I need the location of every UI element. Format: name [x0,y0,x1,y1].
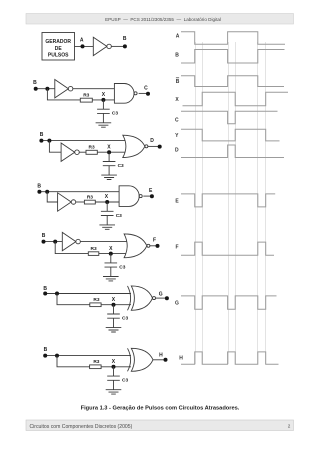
svg-text:Circuitos com Componentes Disc: Circuitos com Componentes Discretos (200… [30,424,133,430]
nor U9 [124,234,147,258]
node B row6 [43,292,47,296]
capacitor C3 [107,305,120,328]
svg-text:Y: Y [175,133,179,139]
wire R3 to node X row4 to NAND U7 [95,201,119,203]
svg-text:R3: R3 [83,92,89,98]
svg-text:C3: C3 [122,316,128,322]
xnor U10 [131,286,152,310]
wire row6 B to XNOR U10 top input [45,293,131,295]
ground [96,123,112,127]
waveform F [181,242,274,255]
wire inverter U6 output to R3 row4 [76,201,85,203]
wire row5 branch down to R3 [55,242,88,254]
inverter U8 [62,232,76,250]
capacitor C3 [107,367,120,390]
node junction row6 [55,292,59,296]
waveform X [183,92,289,106]
svg-text:Figura 1.3 - Geração de Pulsos: Figura 1.3 - Geração de Pulsos com Circu… [81,406,240,412]
waveform D [181,145,284,158]
svg-text:C3: C3 [116,213,122,219]
node B row7 [43,354,47,358]
waveform G [181,296,277,309]
node D [158,145,162,149]
nand U7 [119,186,139,207]
resistor R3 [84,200,95,204]
wire R3 to node X row5 to NOR U9 [99,253,129,255]
wire inverter U4 output to R3 row3 [79,151,86,153]
node A [81,44,85,48]
node junction row4 [45,190,49,194]
node G [165,296,169,300]
wire R3 to node X row2 [92,99,114,101]
node X row2 [101,98,105,102]
node X row3 [107,150,111,154]
node junction row3 [47,139,51,143]
capacitor C3 [103,152,116,175]
node H [164,358,168,362]
svg-text:G: G [175,301,179,307]
node X row6 [112,303,116,307]
svg-text:R3: R3 [91,246,97,252]
svg-text:X: X [109,246,113,252]
capacitor C3 [105,254,118,277]
svg-text:2: 2 [288,424,291,429]
svg-text:H: H [159,352,163,358]
svg-text:B: B [44,347,48,353]
svg-text:C: C [144,85,148,91]
svg-text:H: H [179,355,183,361]
svg-text:C3: C3 [112,111,118,117]
node C [146,92,150,96]
node X row4 [105,200,109,204]
waveform A [181,32,285,45]
node B row4 [37,190,41,194]
wire row2 branch down to R3 [47,89,80,100]
wire inverter U1 output to node B [111,45,125,47]
svg-text:B: B [43,286,47,292]
node junction row5 [53,240,57,244]
block GERADOR DE PULSOS [42,33,75,61]
svg-text:X: X [107,144,111,150]
wire row7 B to XOR U11 top input [45,355,131,357]
svg-text:F: F [153,238,156,244]
svg-text:PULSOS: PULSOS [48,52,69,58]
svg-text:A: A [176,34,180,40]
inverter U6 [58,193,72,211]
svg-text:X: X [105,194,109,200]
wire row3 branch down to inverter U4 [49,141,61,153]
node B [123,44,127,48]
capacitor C3 [101,202,114,225]
wire NAND U7 output to node E [143,195,152,197]
wire inverter U2 output to NAND U3 [73,88,115,90]
node X row5 [109,252,113,256]
node junction row2 [45,87,49,91]
svg-text:C3: C3 [119,264,125,270]
svg-text:B: B [176,79,180,85]
svg-text:D: D [175,148,179,154]
resistor R3 [80,98,92,102]
resistor R3 [90,365,102,369]
wire NOR U5 output to node D [148,145,160,147]
wire XOR U11 output to node H [153,359,166,361]
timing grid vertical lines [195,42,197,364]
nand U3 [114,84,134,104]
node B row2 [34,87,38,91]
svg-text:C: C [175,117,179,123]
nor U5 [123,135,145,157]
waveform E [181,194,275,207]
wire row4 branch down to inverter U6 [47,192,57,202]
wire NAND U3 output to node C [139,92,148,94]
ground [99,225,115,229]
resistor R3 [90,303,101,307]
svg-text:R3: R3 [89,145,95,151]
svg-text:E: E [149,188,153,194]
svg-text:X: X [102,92,106,98]
wire row3 B to NOR U5 top input [41,140,127,142]
node F [156,244,160,248]
node junction row7 [55,354,59,358]
svg-text:G: G [159,291,163,297]
node X row7 [112,365,116,369]
waveform Y [181,129,280,141]
svg-text:DE: DE [55,46,63,52]
wire inverter U8 output to NOR U9 top input [80,241,128,243]
svg-text:X: X [112,359,116,365]
inverter U1 [93,37,107,55]
svg-text:X: X [112,297,116,303]
header bar [26,14,294,25]
wire row6 branch down to R3 [57,294,90,305]
wire NOR U9 output to node F [150,245,158,247]
ground [106,390,122,394]
ground [106,328,122,332]
svg-text:A: A [80,38,84,44]
svg-text:B: B [40,132,44,138]
node B row5 [42,240,46,244]
svg-text:F: F [175,245,178,251]
svg-text:X: X [175,97,179,103]
svg-text:D: D [150,138,154,144]
svg-text:B: B [33,80,37,86]
footer bar [26,420,294,431]
waveform H [181,352,279,364]
wire R3 to node X row7 to XOR U11 [101,366,131,368]
wire row7 branch down to R3 [57,356,90,367]
ground [101,175,117,179]
node E [150,194,154,198]
svg-text:GERADOR: GERADOR [45,39,71,45]
svg-text:R3: R3 [87,194,93,200]
svg-text:B: B [42,233,46,239]
svg-text:R3: R3 [93,359,99,365]
svg-text:C3: C3 [122,378,128,384]
inverter U4 [61,143,75,161]
node B row3 [39,139,43,143]
ground [103,277,119,281]
wire row4 B to NAND U7 top input [39,191,119,193]
inverter U2 [55,80,69,98]
wire XNOR U10 output to node G [156,297,167,299]
svg-text:B: B [123,36,127,42]
svg-text:C3: C3 [118,163,124,169]
capacitor C3 [97,100,110,123]
svg-text:B: B [37,183,41,189]
svg-text:B: B [175,52,179,58]
wire R3 to node X row3 to NOR U5 [97,151,127,153]
svg-text:E: E [175,199,179,205]
wire R3 to node X row6 to XNOR U10 [101,304,131,306]
resistor R3 [86,150,97,154]
svg-text:R3: R3 [93,297,99,303]
wire row5 B to inverter U8 [44,241,63,243]
waveform B [181,50,285,64]
svg-text:EPUSP — PCS 2011/2305/2355: EPUSP — PCS 2011/2305/2355 — Laboratório… [105,17,221,22]
waveform C [181,111,278,124]
wire generator output to inverter U1 [75,45,94,47]
waveform B inverted [181,76,284,87]
resistor R3 [88,252,99,256]
wire row2 B to inverter U2 [36,88,55,90]
xor U11 [131,348,153,371]
